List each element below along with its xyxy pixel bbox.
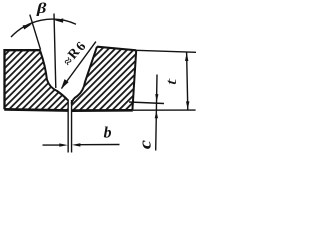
t arrow up bbox=[185, 53, 188, 62]
right plate bottom edge bbox=[72, 109, 133, 112]
c arrow down bbox=[155, 94, 158, 102]
label c bbox=[143, 140, 151, 148]
left plate outline bbox=[5, 50, 41, 109]
b arrow right-pointing bbox=[59, 143, 68, 146]
arc arrow left bbox=[23, 24, 32, 29]
label 6 bbox=[77, 42, 85, 50]
bottom extension line bbox=[133, 109, 196, 111]
label t bbox=[168, 78, 176, 84]
c arrow up bbox=[155, 111, 158, 119]
left plate (hatched fill) bbox=[5, 50, 69, 110]
left plate bottom edge bbox=[4, 109, 68, 110]
t dimension line bbox=[187, 52, 188, 110]
label approx bbox=[65, 57, 72, 65]
right plate groove face bbox=[72, 47, 98, 104]
label b bbox=[104, 126, 111, 137]
b arrow left-pointing bbox=[72, 143, 81, 146]
root-face level line bbox=[129, 102, 164, 104]
slanted bevel reference line bbox=[30, 15, 41, 50]
label beta bbox=[36, 2, 46, 16]
vertical reference line bbox=[54, 14, 56, 89]
right plate top edge bbox=[97, 47, 136, 51]
top extension line bbox=[136, 50, 196, 52]
arc arrow right bbox=[55, 18, 64, 22]
right plate (hatched fill) bbox=[72, 47, 137, 111]
left plate groove face bbox=[40, 50, 68, 100]
b dimension line left bbox=[43, 144, 61, 146]
beta dimension arc bbox=[11, 19, 76, 37]
label R bbox=[67, 49, 80, 60]
root gap line right bbox=[71, 100, 73, 153]
right plate right edge bbox=[132, 50, 136, 110]
root gap line left bbox=[67, 100, 69, 153]
b dimension line right bbox=[80, 144, 120, 146]
R6 leader line bbox=[62, 42, 96, 89]
R6 leader arrowhead bbox=[61, 79, 69, 89]
c dimension upper segment bbox=[156, 75, 157, 151]
t arrow down bbox=[186, 101, 189, 110]
